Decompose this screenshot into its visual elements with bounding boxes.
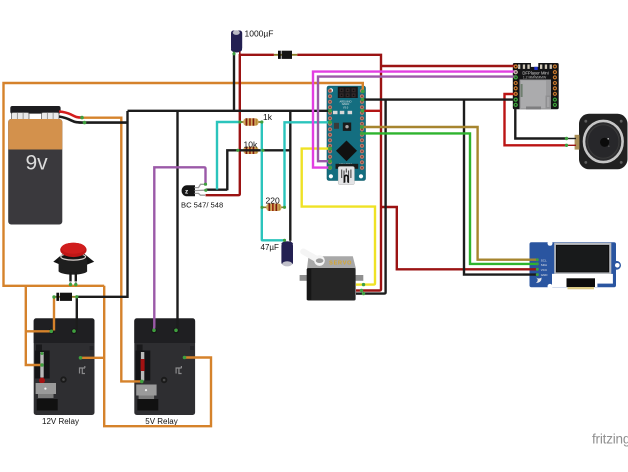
dfplayer connected pin rings overlay [514, 65, 517, 106]
wire olive arduino to display SCL [362, 127, 538, 260]
resistor R3 220 [262, 204, 285, 211]
junction dots green [40, 52, 568, 383]
wire orange diode to relay pin [53, 298, 55, 331]
wire cyan 1k right to 220 and 47uF [262, 122, 285, 240]
svg-text:BC 547/ 548: BC 547/ 548 [181, 201, 223, 210]
wire orange button bus to relays loop [104, 286, 211, 427]
label C2 value 47uF [261, 243, 280, 252]
label R3 value 220 [266, 196, 280, 206]
dfplayer mini U2 [513, 62, 559, 109]
resistor R2 10k [238, 147, 263, 154]
wire red display VCC [381, 207, 537, 269]
wire black display gnd [464, 100, 537, 275]
wire battery black lead [59, 117, 128, 123]
label C1 value 1000uF [245, 29, 274, 39]
wire black battery gnd down to diode [77, 111, 128, 330]
wire cyan 1k left to base [217, 122, 240, 190]
label K1 12V Relay [42, 417, 79, 426]
transistor Q1 BC547 [182, 184, 205, 196]
svg-text:1.2 MMWMMW: 1.2 MMWMMW [523, 76, 547, 80]
wire red dfplayer SPK1 to speaker [505, 94, 577, 145]
svg-text:1000µF: 1000µF [245, 29, 274, 39]
svg-text:10k: 10k [244, 139, 258, 149]
oled display module U3 [530, 241, 621, 289]
wire black gnd to 47uF [289, 111, 291, 241]
label K2 5V Relay [145, 417, 177, 426]
label Q1 BC 547/548 [181, 201, 223, 210]
svg-text:5V Relay: 5V Relay [145, 417, 177, 426]
capacitor C2 47uF [281, 240, 293, 266]
wire magenta arduino to dfplayer RX [313, 72, 516, 168]
wire cyan 220 to arduino A pin [285, 122, 331, 207]
pushbutton S1 [53, 243, 94, 285]
wire black cap negative [233, 54, 235, 111]
wire dark red main 5V rail [241, 55, 382, 291]
resistor R1 1k [240, 118, 262, 125]
svg-text:GND: GND [541, 273, 549, 277]
fritzing watermark [592, 432, 628, 447]
relay module K2 5V [134, 318, 195, 415]
speaker LS1 [575, 114, 628, 169]
diode D2 relay flyback [54, 293, 77, 301]
wire black gnd bus arduino to dfplayer [363, 98, 516, 100]
svg-text:V3.0: V3.0 [343, 105, 349, 109]
svg-text:1k: 1k [263, 112, 273, 122]
battery BT1 9V [8, 106, 62, 225]
arduino nano pin pads [328, 89, 364, 170]
svg-text:VCC: VCC [541, 268, 548, 272]
svg-text:220: 220 [266, 196, 280, 206]
svg-text:fritzing: fritzing [592, 432, 628, 447]
wire orange arduino VIN pin entry [361, 90, 365, 94]
wire black to 5V relay coil [177, 111, 178, 330]
wire battery red lead [59, 112, 82, 118]
svg-text:SDA: SDA [541, 263, 547, 267]
dfplayer pin rows [513, 64, 557, 108]
wire yellow arduino to servo signal [302, 149, 375, 285]
wire dark red cap to transistor emitter [206, 54, 240, 195]
wire dark red to dfplayer VCC [381, 65, 515, 67]
wire green arduino to display SDA [362, 133, 538, 264]
wire red arduino 5V [363, 110, 382, 112]
wire black gnd bus to arduino [128, 110, 331, 112]
svg-text:47µF: 47µF [261, 243, 280, 252]
wire purple arduino to dfplayer TX [318, 77, 516, 162]
diode D1 [274, 51, 297, 59]
wire orange battery+ to 5V relay [82, 118, 142, 382]
wire orange VIN line [4, 83, 363, 286]
label R1 value 1k [263, 112, 273, 122]
relay module K1 12V [34, 318, 95, 415]
label R2 value 10k [244, 139, 258, 149]
wire black servo gnd [364, 100, 386, 294]
svg-text:SERVO: SERVO [329, 261, 352, 267]
capacitor C1 1000uF [231, 30, 242, 55]
wire purple transistor collector to 5V relay [154, 167, 206, 329]
svg-text:SCL: SCL [541, 258, 547, 262]
wire black 10k line and transistor base [206, 150, 290, 190]
wire orange button to 12V relay coil [26, 286, 51, 365]
arduino nano U1 [327, 86, 366, 185]
wire black dfplayer SPK2 to speaker [515, 105, 576, 139]
svg-text:12V Relay: 12V Relay [42, 417, 79, 426]
svg-text:9v: 9v [26, 151, 49, 174]
wire orange 12V relay NO to loop [81, 357, 105, 359]
servo M1 [300, 252, 364, 301]
